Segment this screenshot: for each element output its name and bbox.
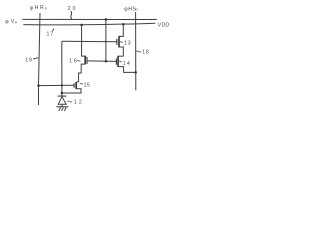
svg-text:1: 1 — [142, 50, 145, 56]
svg-text:7: 7 — [50, 31, 53, 37]
svg-text:1: 1 — [74, 99, 77, 105]
svg-text:5: 5 — [87, 82, 90, 88]
svg-text:0: 0 — [73, 6, 76, 12]
svg-text:8: 8 — [146, 50, 149, 56]
svg-text:4: 4 — [127, 61, 130, 67]
svg-text:s: s — [45, 6, 47, 11]
svg-text:1: 1 — [47, 31, 50, 37]
svg-text:2: 2 — [79, 99, 82, 105]
svg-text:D: D — [165, 23, 169, 29]
svg-text:2: 2 — [68, 6, 71, 12]
svg-text:1: 1 — [123, 61, 126, 67]
svg-text:1: 1 — [124, 40, 127, 46]
svg-text:1: 1 — [69, 58, 72, 64]
svg-text:R: R — [40, 5, 44, 11]
svg-text:6: 6 — [74, 58, 77, 64]
svg-text:1: 1 — [25, 57, 28, 63]
svg-text:3: 3 — [128, 40, 131, 46]
svg-text:n: n — [15, 20, 17, 25]
svg-text:H: H — [35, 5, 39, 11]
svg-text:9: 9 — [29, 57, 32, 63]
svg-text:n: n — [136, 7, 138, 12]
